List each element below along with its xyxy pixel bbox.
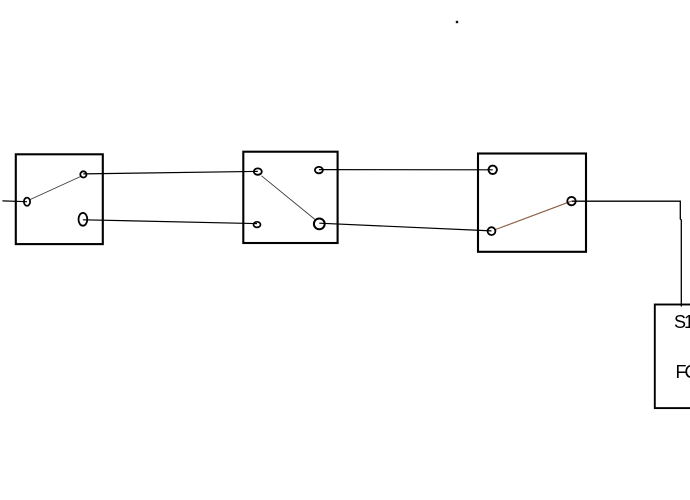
stray dot artifact [456, 21, 458, 23]
wire W4 (box2 top-right terminal to box3 top-left terminal) [319, 169, 493, 171]
terminal box2 bottom-left [254, 222, 261, 228]
terminal box2 top-right [315, 167, 323, 173]
wire W2 (box1 top terminal to box2 top-left terminal) [83, 171, 257, 174]
switch lever in box2 (diagonal) [262, 176, 316, 220]
svg-text:S1: S1 [674, 312, 690, 332]
switch lever in box1 [30, 177, 80, 200]
svg-text:FC: FC [676, 362, 690, 382]
terminal box3 top-left [489, 166, 497, 174]
switch box S2 (middle) [243, 152, 337, 243]
wire W5 (box2 bottom-right terminal to box3 bottom-left terminal) [319, 223, 491, 231]
wire W1 (left feed into switch S1 box) [2, 200, 27, 203]
terminal box1 common (left) [24, 198, 30, 206]
terminal box2 bottom-right (large) [314, 219, 325, 230]
switch lever in box3 (brown wire) [496, 201, 571, 229]
terminal box1 top-right [80, 171, 86, 177]
load box (clipped at right edge) [655, 305, 690, 409]
wire W3 (box1 bottom terminal to box2 bottom-left terminal) [83, 220, 257, 224]
switch box S3 (right) [478, 154, 586, 252]
switch box S1 (left) [16, 154, 103, 244]
terminal box1 bottom-right (large ellipse) [79, 213, 88, 226]
terminal box3 bottom-left [488, 227, 496, 235]
terminal box3 right (output) [567, 197, 575, 205]
terminal box2 top-left [254, 168, 262, 174]
wire W6 (box3 right terminal to load box, right then down) [572, 201, 682, 306]
